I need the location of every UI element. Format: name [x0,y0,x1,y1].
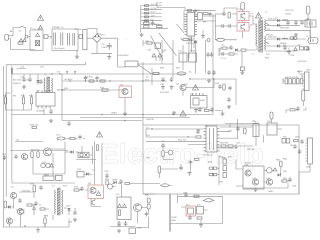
wire rails mid [12,115,238,140]
pin stubs [38,90,50,109]
junction [51,73,52,74]
capacitor C14 [220,24,225,28]
svg-text:IC6: IC6 [116,194,120,196]
wire [249,16,257,50]
resistor R14 [145,20,149,22]
wire [242,10,244,38]
value labels primary [220,9,255,60]
capacitor C52 [105,173,109,178]
capacitor C20 [286,20,290,25]
connector strip J5 [308,138,313,164]
wire [140,6,142,33]
svg-text:C19: C19 [147,50,152,52]
capacitor C11 [208,12,212,17]
wire diagonal C [176,24,184,33]
diode D22 [50,164,54,167]
resistor R101 [40,208,45,210]
wire hook arrow [298,70,303,72]
svg-text:+: + [290,31,292,33]
wire [309,30,311,34]
resistor R17 [157,25,163,27]
capacitor C60 [196,129,200,134]
ground [76,50,78,55]
driver box inner [80,153,88,157]
resistor R26b [305,47,309,50]
resistor R15 [144,22,150,24]
svg-text:C61: C61 [146,135,151,137]
diode D24 [86,172,89,175]
fuse F3 [306,6,310,14]
svg-text:IC4: IC4 [178,51,182,53]
wire [16,192,41,210]
wire [215,8,237,14]
svg-text:1N60: 1N60 [112,180,118,182]
wire [215,39,237,41]
node +12V stub [141,12,162,14]
wire [61,74,63,121]
resistor R50 [285,79,288,84]
diode D2 [94,35,97,38]
fuse F1 [18,42,23,44]
wire [65,151,79,153]
thermistor NTC1 [125,61,138,67]
svg-text:D93-004: D93-004 [268,37,277,39]
capacitor C3 [73,33,75,46]
value labels misc E [22,169,118,224]
ground [36,229,40,233]
wire [11,66,13,68]
svg-text:D10: D10 [40,67,45,69]
resistor R60 [31,152,33,158]
capacitor C77 [184,192,188,197]
IC U6 [191,96,208,109]
svg-text:22: 22 [146,77,149,79]
svg-text:1N4148: 1N4148 [146,119,154,121]
svg-text:D12: D12 [266,54,271,56]
ground [240,71,244,75]
resistor R62 [70,137,75,139]
capacitor C75 [117,221,121,226]
capacitor C40b [207,70,211,75]
warning triangle [256,13,262,18]
ground [254,188,258,192]
svg-text:+: + [119,39,121,41]
svg-text:R64 R65: R64 R65 [31,150,40,152]
diode D1 [98,35,101,38]
svg-text:R33 22k: R33 22k [30,125,39,127]
red highlight box U7 [186,206,196,216]
svg-text:D20: D20 [66,206,71,208]
capacitor C63 [236,126,240,131]
capacitor C62 [234,144,238,149]
ground [188,172,192,176]
capacitor C83 [145,212,149,217]
inductor L5 [282,19,288,22]
svg-text:CN3: CN3 [306,70,311,72]
svg-text:C3 .22u: C3 .22u [74,29,82,31]
resistor R31 [22,97,24,104]
red highlight box Q3 [119,86,132,98]
oval net label [162,184,169,187]
transistor Q2 [241,24,245,32]
resistor R12 [145,12,149,14]
svg-text:C20 C21: C20 C21 [285,10,294,12]
diode D28 [114,181,117,184]
value labels aux [3,67,189,98]
svg-text:SBL2040: SBL2040 [280,28,290,30]
wire [289,21,310,51]
resistor R2 [44,35,48,39]
resistor R30 [4,97,6,104]
capacitor C33 [49,109,53,114]
wire [143,160,236,194]
capacitor C18 [220,52,225,56]
wire [87,29,97,35]
svg-text:SW: SW [283,137,287,139]
wire bus [170,194,223,232]
wire diagonal [138,65,151,74]
value labels secondary caps [266,10,301,56]
svg-text:C9 10n: C9 10n [186,43,194,45]
diode D15 [36,80,39,83]
svg-text:TL494CN: TL494CN [203,155,213,157]
resistor R55 [290,109,295,111]
svg-text:250VAC .1u: 250VAC .1u [52,26,64,29]
svg-text:CN6: CN6 [306,167,311,169]
tap hook A [66,72,68,75]
box K2 [267,123,277,135]
wire left rail C [11,74,13,183]
diode D19b [158,54,162,57]
node PG stub [141,20,162,22]
svg-text:R50 R51: R50 R51 [220,143,229,145]
capacitor C51 [78,135,82,140]
resistor R52 [293,79,296,84]
wire pair down [94,141,102,185]
svg-text:Q1: Q1 [250,13,254,15]
svg-text:D14: D14 [42,162,47,164]
IC U5 [36,93,55,107]
wire [183,10,185,30]
svg-text:CN5: CN5 [137,228,142,230]
capacitor C9b [193,9,197,14]
svg-text:R80: R80 [145,195,150,197]
svg-text:+5V: +5V [158,3,162,5]
pin stubs right [195,14,198,34]
wire [217,155,219,185]
svg-text:C44 470u: C44 470u [297,61,307,63]
svg-text:5VSB: 5VSB [171,217,177,219]
box bias [43,176,54,181]
resistor R92 [27,204,32,206]
resistor R44 [205,109,210,111]
wire rail [12,69,186,75]
wire [183,79,236,105]
wire [24,74,38,85]
resistor R95 [118,210,120,216]
ground [107,56,111,60]
capacitor C1 [54,33,56,46]
diode D30 [123,204,127,207]
wire left rail A [3,66,5,227]
diode D29 [118,204,122,207]
resistor R10 [145,5,149,7]
resistor R76 [223,159,227,164]
optocoupler U4 [198,13,203,20]
svg-text:FR302: FR302 [280,43,287,45]
wire [215,14,217,40]
wire [195,16,216,21]
ground [227,105,231,109]
transistor Q12 [6,218,12,224]
diode D27 [67,208,70,211]
resistor R70 [196,136,201,138]
capacitor C79 [32,206,36,211]
svg-text:-5V 1k: -5V 1k [150,8,157,10]
wire [65,138,85,140]
svg-text:BIAS: BIAS [44,174,50,177]
svg-text:Q4: Q4 [16,140,20,142]
transistor Q10 [10,192,16,198]
svg-text:R21: R21 [21,96,26,98]
warning triangle [97,132,103,137]
capacitor C50 [14,154,18,159]
winding arrow [266,42,269,44]
resistor R8b [188,9,192,11]
svg-text:T2: T2 [52,186,55,188]
svg-text:2SC945: 2SC945 [22,191,31,193]
wire [272,119,283,129]
transistor Q11 [17,208,23,214]
capacitor C31 [28,77,32,82]
resistor R67 [32,127,37,129]
transformer T2 winding left [55,190,56,214]
transformer T1 secondary winding upper [264,20,265,32]
ground [49,119,53,123]
capacitor C16 [229,45,233,50]
capacitor C35 [84,76,88,81]
capacitor C38 [170,77,174,82]
wire mains return [6,62,85,65]
wire [220,48,250,56]
svg-text:CN2: CN2 [306,19,311,21]
transistor Q9b [267,168,273,174]
capacitor C46 [296,106,300,111]
oval net label [177,72,186,75]
diode D25 [278,173,281,176]
svg-text:R20: R20 [3,96,8,98]
capacitor C65 [298,149,302,154]
wires top right inside box [225,124,258,137]
capacitor C37 [161,77,165,82]
capacitor C54 [3,155,7,160]
resistor R97 (pill) [147,204,150,209]
svg-text:T2: T2 [44,75,47,77]
sub box [243,166,264,189]
svg-text:R9: R9 [13,96,17,98]
svg-text:GND: GND [268,191,273,193]
diode D21 [46,163,50,167]
capacitor C76 [124,221,128,226]
svg-text:AC: AC [10,30,13,33]
capacitor C66 [288,177,292,182]
svg-text:EE1616: EE1616 [57,90,66,92]
oval net label [57,137,65,140]
wire [79,190,101,207]
EMI filter box 1 [30,30,43,50]
inductor L3 [61,33,63,46]
svg-text:R22: R22 [29,96,34,98]
capacitor C61 [161,143,165,148]
ground [207,79,211,83]
value labels box interior [146,131,294,160]
svg-text:Q2: Q2 [250,25,254,27]
resistor R79 [228,145,233,147]
value labels misc C [146,50,197,79]
diode D20 [41,163,45,167]
svg-text:C28: C28 [68,222,73,224]
svg-text:+: + [126,39,128,41]
red highlight box Q13 [88,185,104,199]
wire hook [286,107,306,113]
thyristor Q16 [168,150,173,155]
svg-text:C63: C63 [228,131,233,133]
diode D31 [8,205,11,208]
pin stubs left [204,129,207,151]
wire [156,57,160,61]
resistor R11 [145,8,149,10]
warning triangle [96,192,100,196]
capacitor C45 [302,90,305,101]
value labels protection [244,160,288,181]
wire [242,135,264,146]
wire [112,184,160,198]
svg-text:B+: B+ [189,72,192,74]
capacitor C23 [283,45,287,50]
svg-text:C26: C26 [104,171,109,173]
capacitor C36 [95,76,99,81]
IC U1 (TL494) [206,126,217,152]
connector J2 [305,20,316,27]
capacitor C30 [22,77,26,82]
transistor Q7 [245,170,251,176]
svg-text:T1S: T1S [266,29,271,31]
resistor R96 (pill) [147,198,150,203]
box aux2 [189,53,197,62]
resistor R99 [197,217,202,219]
resistor R16 [144,26,150,28]
red highlight box Q1 [237,12,249,21]
wire [160,164,191,172]
capacitor C13 [222,11,226,16]
wire [306,14,308,21]
wire [146,127,253,148]
svg-text:B+: B+ [222,45,225,47]
junction [24,225,25,226]
capacitor C71 [34,201,38,206]
svg-text:D83-004: D83-004 [268,19,277,21]
MOSFET Q4 [180,84,186,90]
ground [194,109,198,113]
wire [11,37,35,51]
ground [199,224,203,228]
diode D11 [277,24,280,27]
connector J3 [308,38,318,44]
resistor R21 [222,47,227,49]
resistor R94 [125,182,130,184]
svg-text:4n7/250V: 4n7/250V [160,92,170,94]
resistor R93 [74,189,79,191]
warning triangle [38,15,44,20]
value labels G section [16,135,61,177]
svg-text:+5V 1k: +5V 1k [150,4,158,6]
capacitor C44 [227,97,231,102]
resistor R51 [289,79,292,84]
fusible resistor FR1 [11,68,13,74]
wire [160,184,172,186]
capacitor C48 [210,107,214,112]
warning triangle small A [19,39,22,42]
wire [118,58,174,67]
diode D23 [71,150,74,153]
ground [294,33,298,37]
wire diagonal A [159,33,177,56]
svg-text:R62: R62 [283,159,288,161]
inductor L6 [282,37,288,40]
svg-text:C68: C68 [292,186,297,188]
wire [13,28,19,36]
capacitor C41b [212,70,216,75]
resistor R13 [145,16,149,18]
warning triangle small [39,26,43,29]
wire [44,109,51,115]
ground [123,112,127,116]
transformer L1 (common-mode choke) [36,33,40,36]
transformer T1 core [259,21,263,53]
svg-text:TH1: TH1 [267,121,272,123]
svg-text:T1: T1 [252,54,255,56]
wire [143,14,213,125]
value labels top-middle [143,10,207,45]
capacitor C2 [68,33,70,46]
resistor R32 [30,97,32,104]
pin stubs [193,93,204,96]
resistor R102 [44,218,46,224]
capacitor C70 [39,185,43,190]
oval net label [205,199,213,202]
wire left rail B [5,65,7,197]
junction [151,128,152,129]
svg-text:R58: R58 [265,58,270,60]
wire [43,36,83,38]
resistor R25 [300,47,304,50]
node -5V stub [141,8,162,10]
diode D12 [277,37,280,40]
IC U6 inner [193,98,199,105]
wire [243,183,288,188]
wire [10,142,68,177]
wire [158,173,160,178]
resistor R19 [183,39,188,41]
wire [143,40,155,46]
wire [146,129,203,137]
box aux [179,53,187,62]
resistor R77 [223,166,227,171]
switch S1 [19,26,26,28]
capacitor C74 [119,179,123,184]
capacitor C67 [300,139,304,144]
diode D9 [235,48,238,51]
